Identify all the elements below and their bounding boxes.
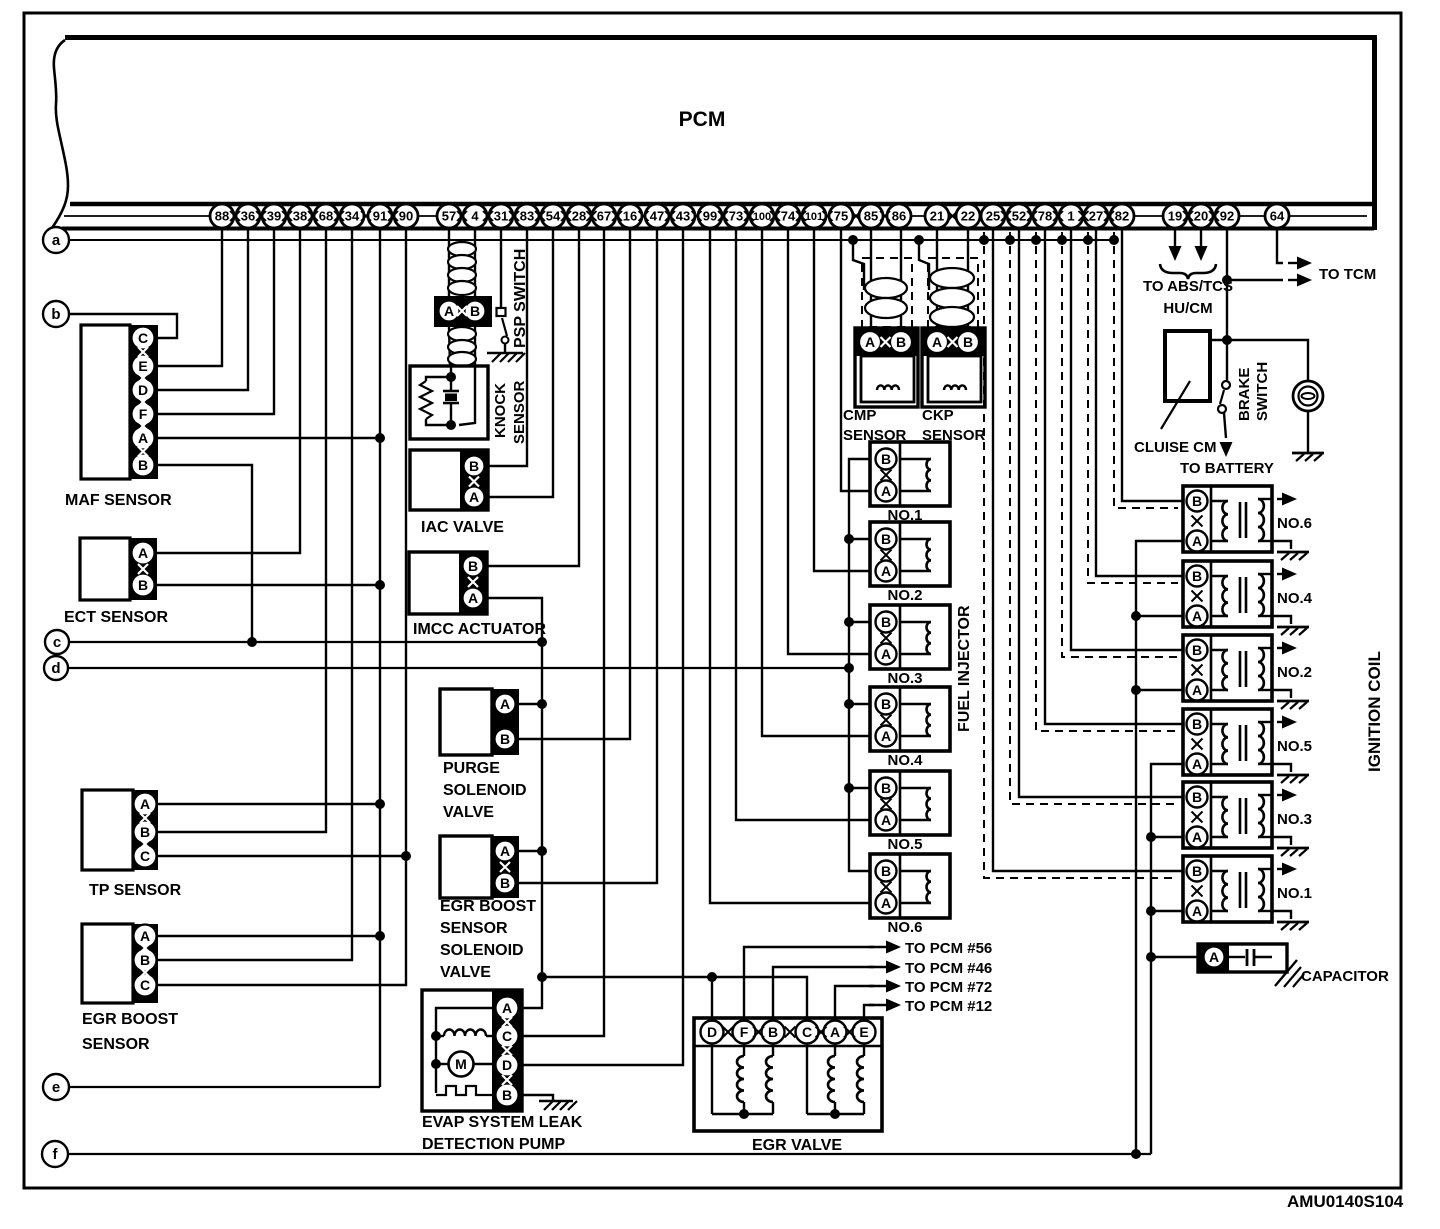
PCM connector band lines	[70, 202, 1374, 207]
PCM pin 21	[925, 204, 949, 228]
svg-text:A: A	[468, 590, 478, 606]
fuel injector NO.1	[870, 442, 950, 506]
injector NO.6 coil	[900, 870, 931, 872]
PCM pin 39	[262, 204, 286, 228]
svg-text:B: B	[896, 334, 906, 350]
svg-text:B: B	[881, 863, 891, 879]
PCM pin 27	[1084, 204, 1108, 228]
PCM pin 99	[698, 204, 722, 228]
svg-text:A: A	[830, 1024, 840, 1040]
CMP sensor	[855, 328, 918, 407]
wire: pin 19 to ABS/TCS	[1174, 228, 1176, 246]
svg-text:B: B	[500, 731, 510, 747]
EGR valve	[694, 1018, 882, 1131]
svg-text:D: D	[707, 1024, 717, 1040]
svg-text:F: F	[740, 1024, 749, 1040]
wire: pin 91 reference bus	[379, 228, 381, 1087]
svg-text:A: A	[1192, 608, 1202, 624]
PCM pin 88	[210, 204, 234, 228]
svg-text:B: B	[470, 303, 480, 319]
svg-text:19: 19	[1168, 209, 1182, 224]
svg-text:B: B	[140, 824, 150, 840]
wire: capacitor feed	[1146, 952, 1156, 962]
svg-text:A: A	[1192, 756, 1202, 772]
svg-text:68: 68	[319, 209, 333, 224]
svg-text:D: D	[502, 1057, 512, 1073]
PCM pin 25	[981, 204, 1005, 228]
fuel injector NO.5	[870, 771, 950, 835]
PCM pin 4	[463, 204, 487, 228]
CMP shield box	[862, 258, 912, 327]
PCM pin 57	[437, 204, 461, 228]
PCM pin 19	[1163, 204, 1187, 228]
svg-text:HU/CM: HU/CM	[1163, 300, 1212, 317]
svg-text:C: C	[140, 977, 150, 993]
svg-text:C: C	[502, 1028, 512, 1044]
ignition shield drain	[1010, 232, 1178, 804]
PCM pin 82	[1110, 204, 1134, 228]
svg-text:B: B	[768, 1024, 778, 1040]
svg-text:28: 28	[572, 209, 586, 224]
svg-text:TO PCM #12: TO PCM #12	[905, 998, 992, 1015]
wire: pin 88 to MAF E	[157, 228, 222, 366]
cruise control module	[1165, 331, 1210, 401]
svg-text:NO.2: NO.2	[1277, 664, 1312, 681]
EGR valve internals	[711, 1044, 713, 1114]
junction dots power bus	[537, 637, 547, 647]
svg-text:A: A	[500, 843, 510, 859]
svg-text:22: 22	[961, 209, 975, 224]
svg-text:A: A	[881, 483, 891, 499]
coil NO.1 secondary ground	[1272, 911, 1291, 919]
svg-text:TO PCM #72: TO PCM #72	[905, 979, 992, 996]
svg-text:B: B	[502, 1087, 512, 1103]
svg-text:A: A	[881, 728, 891, 744]
svg-text:78: 78	[1038, 209, 1052, 224]
svg-text:43: 43	[676, 209, 690, 224]
svg-text:38: 38	[293, 209, 307, 224]
fuel injector NO.2	[870, 522, 950, 586]
svg-text:74: 74	[781, 209, 796, 224]
svg-text:A: A	[500, 696, 510, 712]
svg-text:52: 52	[1012, 209, 1026, 224]
knock sensor	[410, 366, 488, 439]
EGR valve common wires	[712, 1113, 773, 1115]
wire: to stop lamp	[1227, 340, 1308, 381]
wire: pin 82 to ignition coil NO.6 B	[1122, 228, 1183, 501]
wire: pin 20 to ABS/TCS	[1200, 228, 1202, 246]
wire: pin 22 to CKP B	[967, 228, 969, 328]
wire: pin 75 to injector NO.1 A	[841, 228, 871, 491]
svg-text:A: A	[469, 489, 479, 505]
coil NO.6 spark output arrow	[1277, 498, 1285, 500]
EGR valve pin B	[762, 1021, 785, 1044]
wire: ECT B to bus 91	[157, 584, 380, 586]
PCM pin 90	[394, 204, 418, 228]
ignition coil NO.5	[1183, 709, 1272, 775]
CMP shield drain	[853, 240, 864, 290]
PCM pin 64	[1265, 204, 1289, 228]
svg-text:SENSOR: SENSOR	[440, 920, 508, 937]
EGR valve pin A	[824, 1021, 847, 1044]
svg-text:C: C	[138, 330, 148, 346]
svg-text:A: A	[1192, 903, 1202, 919]
knock sensor internals	[450, 366, 452, 391]
svg-text:88: 88	[215, 209, 229, 224]
PCM pin 34	[340, 204, 364, 228]
PCM pin 75	[829, 204, 853, 228]
wire: pin 68 to TP B	[158, 228, 326, 832]
svg-text:82: 82	[1115, 209, 1129, 224]
svg-text:NO.2: NO.2	[887, 587, 922, 604]
svg-text:NO.3: NO.3	[887, 670, 922, 687]
svg-text:B: B	[1192, 716, 1202, 732]
coil NO.2 spark output arrow	[1277, 647, 1285, 649]
svg-text:83: 83	[520, 209, 534, 224]
wire: pin 57 twisted pair left	[448, 228, 450, 296]
svg-text:B: B	[138, 577, 148, 593]
ignition coil NO.2	[1183, 635, 1272, 701]
injector NO.4 coil	[900, 703, 931, 705]
injector NO.5 coil	[900, 787, 931, 789]
svg-text:IAC VALVE: IAC VALVE	[421, 519, 504, 536]
svg-text:NO.5: NO.5	[887, 836, 922, 853]
svg-text:67: 67	[597, 209, 611, 224]
wire: twisted pair below connector	[449, 327, 450, 366]
junction dots left area	[375, 433, 385, 443]
wire: EGR boost sensor A to bus 91	[158, 935, 380, 937]
PCM pin 47	[645, 204, 669, 228]
svg-text:57: 57	[442, 209, 456, 224]
coil NO.4 transformer	[1211, 575, 1228, 577]
PCM pin 52	[1007, 204, 1031, 228]
svg-text:B: B	[469, 458, 479, 474]
wire: pin 1 to ignition coil NO.2 B	[1071, 228, 1183, 650]
PCM pin 43	[671, 204, 695, 228]
svg-text:31: 31	[494, 209, 508, 224]
PSP connector A/B	[434, 296, 492, 327]
wire: pin 73 to injector NO.5 A	[736, 228, 871, 820]
svg-text:A: A	[865, 334, 875, 350]
svg-text:TO PCM #46: TO PCM #46	[905, 960, 992, 977]
wire: pin 92 trunk	[1226, 228, 1228, 380]
wire: pin 27 to ignition coil NO.4 B	[1096, 228, 1183, 576]
svg-text:ECT SENSOR: ECT SENSOR	[64, 609, 168, 626]
EGR valve pin D	[701, 1021, 724, 1044]
wire: EGR solenoid B to pin 47	[519, 228, 657, 883]
svg-text:CKP: CKP	[922, 407, 954, 424]
PCM pin 92	[1215, 204, 1239, 228]
svg-text:34: 34	[345, 209, 360, 224]
svg-text:A: A	[1209, 949, 1219, 965]
wire: pin 64 to TCM	[1277, 228, 1283, 263]
wire: ignition coil A bus 1	[1136, 541, 1183, 1154]
wire: pin 90 return bus to EGR boost sensor C	[158, 228, 406, 985]
coil NO.2 secondary ground	[1272, 690, 1291, 698]
PCM pin 38	[288, 204, 312, 228]
coil NO.5 secondary ground	[1272, 764, 1291, 772]
coil NO.2 transformer	[1211, 649, 1228, 651]
svg-text:36: 36	[241, 209, 255, 224]
wire: pin 34 to EGR boost sensor B	[158, 228, 352, 960]
svg-text:BRAKE: BRAKE	[1236, 368, 1253, 421]
PSP switch	[500, 228, 502, 308]
wire: pin 99 to injector NO.6 A	[710, 228, 871, 903]
motor M	[436, 1063, 449, 1065]
wire: IAC A to pin 54	[488, 228, 553, 497]
TP sensor	[82, 790, 133, 870]
svg-text:B: B	[1192, 789, 1202, 805]
coil NO.1 transformer	[1211, 870, 1228, 872]
svg-text:A: A	[1192, 829, 1202, 845]
wire: TP C to bus 90	[158, 855, 406, 857]
ignition shield drain	[1062, 232, 1178, 657]
svg-text:B: B	[881, 696, 891, 712]
coil NO.1 spark output arrow	[1277, 868, 1285, 870]
wire: pin 92 to TCM	[1227, 279, 1283, 281]
wire: power line c	[69, 641, 542, 643]
svg-text:NO.5: NO.5	[1277, 738, 1312, 755]
svg-text:47: 47	[650, 209, 664, 224]
PCM pin 67	[592, 204, 616, 228]
svg-text:PCM: PCM	[679, 108, 726, 131]
ignition shield drain	[1114, 232, 1178, 508]
svg-text:21: 21	[930, 209, 944, 224]
svg-text:4: 4	[471, 209, 479, 224]
svg-text:25: 25	[986, 209, 1000, 224]
ignition coil NO.3	[1183, 782, 1272, 848]
svg-text:NO.4: NO.4	[887, 752, 923, 769]
EGR boost sensor solenoid valve	[440, 836, 492, 898]
wire: EGR E to PCM 12	[864, 1005, 874, 1020]
svg-text:B: B	[1192, 493, 1202, 509]
EVAP internals	[436, 1008, 492, 1093]
injector NO.2 coil	[900, 538, 931, 540]
svg-text:39: 39	[267, 209, 281, 224]
wire: shield ground bus (line a)	[69, 239, 1118, 241]
svg-text:A: A	[1192, 682, 1202, 698]
wire: lamp to ground	[1307, 411, 1309, 452]
svg-text:B: B	[1192, 863, 1202, 879]
wire: EVAP D to pin 43	[522, 228, 683, 1065]
wire: MAF B to line c	[157, 465, 252, 642]
ignition shield drain	[984, 232, 1178, 878]
MAF sensor	[81, 325, 130, 479]
svg-text:EGR BOOST: EGR BOOST	[82, 1011, 178, 1028]
svg-text:SOLENOID: SOLENOID	[443, 782, 527, 799]
stop lamp	[1293, 381, 1323, 411]
svg-text:20: 20	[1194, 209, 1208, 224]
svg-text:NO.3: NO.3	[1277, 811, 1312, 828]
ignition coil NO.4	[1183, 561, 1272, 627]
wire: EGR A to PCM 72	[835, 986, 874, 1020]
svg-text:A: A	[444, 303, 454, 319]
wire: pin 36 to MAF D	[157, 228, 248, 390]
PCM pin 36	[236, 204, 260, 228]
svg-text:CLUISE CM: CLUISE CM	[1134, 439, 1217, 456]
svg-text:NO.1: NO.1	[1277, 885, 1312, 902]
svg-text:TO ABS/TCS: TO ABS/TCS	[1143, 278, 1233, 295]
CKP sensor	[922, 328, 985, 407]
svg-text:A: A	[140, 928, 150, 944]
wire: injector power line d	[68, 667, 849, 669]
svg-text:E: E	[138, 358, 147, 374]
svg-text:FUEL INJECTOR: FUEL INJECTOR	[956, 605, 973, 732]
wire: EGR F to PCM 56	[744, 947, 874, 1020]
PCM pin 54	[541, 204, 565, 228]
svg-text:E: E	[859, 1024, 868, 1040]
svg-text:TO PCM #56: TO PCM #56	[905, 940, 992, 957]
wire: pin 78 to ignition coil NO.5 B	[1045, 228, 1183, 724]
svg-text:A: A	[881, 563, 891, 579]
wire: EVAP B to ground	[522, 1095, 553, 1100]
PCM pin 1	[1059, 204, 1083, 228]
PCM pin 31	[489, 204, 513, 228]
wire: purge B to pin 16	[519, 228, 630, 739]
CKP shield box	[928, 258, 978, 327]
brake switch	[1222, 381, 1230, 389]
wire: pin 25 to ignition coil NO.1 B	[993, 228, 1183, 871]
svg-text:B: B	[881, 451, 891, 467]
PCM pin 68	[314, 204, 338, 228]
capacitor chassis ground	[1275, 960, 1297, 986]
PCM pin 20	[1189, 204, 1213, 228]
coil NO.6 secondary ground	[1272, 541, 1291, 549]
svg-text:B: B	[881, 780, 891, 796]
svg-text:TO BATTERY: TO BATTERY	[1180, 460, 1274, 477]
svg-text:99: 99	[703, 209, 717, 224]
svg-text:86: 86	[892, 209, 906, 224]
wire: pin 101 to injector NO.2 A	[814, 228, 871, 571]
svg-text:B: B	[500, 875, 510, 891]
svg-text:73: 73	[729, 209, 743, 224]
svg-text:TO TCM: TO TCM	[1319, 266, 1376, 283]
capacitor	[1198, 944, 1287, 972]
svg-text:EVAP SYSTEM LEAK: EVAP SYSTEM LEAK	[422, 1114, 583, 1131]
svg-text:1: 1	[1067, 209, 1074, 224]
svg-text:NO.6: NO.6	[887, 919, 922, 936]
svg-text:92: 92	[1220, 209, 1234, 224]
coil NO.3 secondary ground	[1272, 837, 1291, 845]
svg-text:C: C	[140, 848, 150, 864]
svg-text:B: B	[140, 952, 150, 968]
svg-text:TP SENSOR: TP SENSOR	[89, 882, 182, 899]
wire: power bus to EGR valve D and C	[542, 977, 807, 1020]
svg-text:27: 27	[1089, 209, 1103, 224]
svg-text:IGNITION COIL: IGNITION COIL	[1365, 651, 1384, 772]
PCM pin 100	[750, 204, 774, 228]
coil NO.4 secondary ground	[1272, 616, 1291, 624]
svg-text:a: a	[52, 232, 61, 249]
heater element	[436, 1086, 492, 1095]
ECT sensor	[80, 538, 130, 600]
ignition coil NO.6	[1183, 486, 1272, 552]
svg-text:16: 16	[623, 209, 637, 224]
svg-text:A: A	[881, 895, 891, 911]
wire: EVAP C to pin 67	[522, 228, 604, 1036]
svg-text:F: F	[139, 406, 148, 422]
svg-text:85: 85	[864, 209, 878, 224]
coil NO.4 spark output arrow	[1277, 573, 1285, 575]
PCM pin 22	[956, 204, 980, 228]
wire: pin 85 to CMP A	[870, 228, 872, 328]
svg-text:100: 100	[753, 211, 771, 223]
EGR valve pin F	[733, 1021, 756, 1044]
wire: pin 21 to CKP A	[936, 228, 938, 328]
wire: IMCC A to power bus	[487, 598, 542, 1008]
PCM pin 101	[802, 204, 826, 228]
svg-text:64: 64	[1270, 209, 1285, 224]
svg-text:SWITCH: SWITCH	[1254, 362, 1271, 421]
svg-text:EGR VALVE: EGR VALVE	[752, 1137, 842, 1154]
fuel injector NO.6	[870, 854, 950, 918]
svg-text:C: C	[802, 1024, 812, 1040]
coil NO.3 transformer	[1211, 796, 1228, 798]
svg-text:e: e	[52, 1079, 60, 1096]
svg-text:SOLENOID: SOLENOID	[440, 942, 524, 959]
wire: pin 74 to injector NO.3 A	[788, 228, 871, 654]
svg-text:IMCC ACTUATOR: IMCC ACTUATOR	[413, 621, 546, 638]
svg-text:B: B	[881, 531, 891, 547]
svg-text:A: A	[502, 1000, 512, 1016]
svg-text:CMP: CMP	[843, 407, 876, 424]
wire: IAC B to pin 83	[488, 228, 527, 466]
cruise CM pointer	[1161, 381, 1190, 429]
wire: line e to sensor bus	[69, 1086, 380, 1088]
svg-text:b: b	[51, 306, 60, 323]
svg-text:NO.4: NO.4	[1277, 590, 1313, 607]
svg-text:KNOCK: KNOCK	[492, 383, 509, 438]
ignition shield drain	[1036, 232, 1178, 731]
brace	[1160, 264, 1216, 279]
svg-text:B: B	[963, 334, 973, 350]
svg-text:c: c	[53, 634, 61, 651]
injector NO.1 coil	[900, 458, 931, 460]
coil NO.5 spark output arrow	[1277, 721, 1285, 723]
svg-text:A: A	[932, 334, 942, 350]
fuel injector NO.4	[870, 687, 950, 751]
purge solenoid valve	[440, 689, 492, 755]
wire: IMCC B to pin 28	[487, 228, 579, 566]
svg-text:PURGE: PURGE	[443, 760, 500, 777]
wire: ignition coil A bus 2	[1151, 764, 1183, 1154]
wire: EGR solenoid A to power bus	[519, 850, 542, 852]
PCM pin 78	[1033, 204, 1057, 228]
PCM pin 74	[776, 204, 800, 228]
PCM pin 73	[724, 204, 748, 228]
PCM pin 86	[887, 204, 911, 228]
wire: pin 52 to ignition coil NO.3 B	[1019, 228, 1183, 797]
svg-text:101: 101	[805, 211, 823, 223]
wire: pin 100 to injector NO.4 A	[762, 228, 871, 736]
svg-text:91: 91	[373, 209, 387, 224]
svg-text:DETECTION PUMP: DETECTION PUMP	[422, 1136, 565, 1153]
svg-text:A: A	[881, 646, 891, 662]
PCM pin 28	[567, 204, 591, 228]
wire: injector B common bus	[849, 459, 871, 871]
EGR valve pin E	[853, 1021, 876, 1044]
EVAP system leak detection pump	[422, 990, 522, 1111]
svg-text:A: A	[138, 545, 148, 561]
svg-text:AMU0140S104: AMU0140S104	[1287, 1192, 1404, 1211]
svg-text:75: 75	[834, 209, 848, 224]
svg-text:VALVE: VALVE	[443, 804, 494, 821]
svg-text:A: A	[140, 796, 150, 812]
PCM box	[65, 35, 1377, 40]
ignition shield drain	[1088, 232, 1178, 583]
svg-text:A: A	[138, 430, 148, 446]
svg-text:D: D	[138, 382, 148, 398]
